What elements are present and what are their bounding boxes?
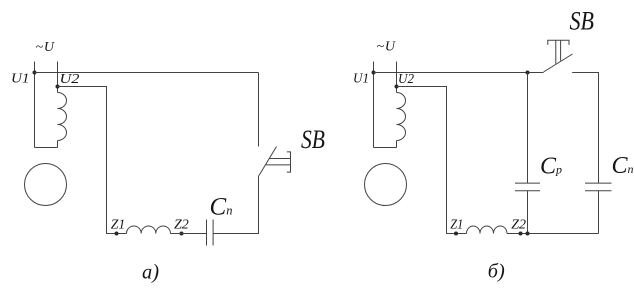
capacitor Cn plates (a) (207, 220, 214, 246)
node U2 (a) (56, 85, 60, 89)
wire: capacitor to switch lower terminal (a) (213, 176, 258, 234)
motor rotor circle (a) (25, 164, 67, 206)
svg-text:U1: U1 (353, 72, 369, 87)
svg-text:U2: U2 (60, 72, 80, 87)
wire: winding coil bottom tail (b) (396, 141, 398, 148)
svg-text:Cp: Cp (540, 153, 562, 179)
switch SB actuator shafts (a) (266, 159, 291, 165)
wire: right supply stub down to winding (a) (57, 62, 59, 93)
svg-text:~U: ~U (377, 40, 396, 55)
svg-text:U2: U2 (398, 72, 414, 87)
node U1 (a) (33, 71, 37, 75)
winding coil L (b) (397, 93, 406, 141)
wire: U2 down to starting branch (a) (58, 87, 127, 234)
node Z2 (b) (519, 232, 523, 236)
svg-text:U1: U1 (11, 72, 30, 87)
inductor Z coil (b) (467, 226, 508, 234)
node Z1 (b) (454, 232, 458, 236)
wire: U2 down to starting branch (b) (397, 87, 467, 234)
node Z2 (a) (180, 232, 184, 236)
wire: left supply stub + winding left leg (a) (34, 62, 36, 148)
capacitor Cn plates (b) (585, 183, 612, 191)
svg-text:~U: ~U (36, 40, 55, 55)
switch SB actuator shafts (b) (556, 40, 561, 63)
svg-text:Z1: Z1 (111, 218, 126, 233)
wire: right supply stub down to winding (b) (396, 62, 398, 93)
node: junction of Cp branch on top bus (b) (526, 71, 530, 75)
wire: left supply stub + winding left leg (b) (373, 62, 375, 148)
wire: Cn branch lower lead (b) (598, 191, 600, 234)
switch SB fixed contact lead (a) (258, 73, 260, 147)
svg-text:б): б) (488, 261, 505, 283)
wire: coil to capacitor (a) (171, 233, 207, 235)
switch SB blade (a) (259, 147, 277, 176)
svg-text:Cn: Cn (612, 153, 634, 179)
wire: Cp branch upper lead (b) (527, 73, 529, 184)
svg-text:Z1: Z1 (450, 218, 463, 233)
wire: winding bottom lead (a) (35, 147, 58, 149)
node: junction of Cp branch on bottom bus (b) (526, 232, 530, 236)
svg-text:Cn: Cn (210, 194, 233, 221)
wire: switch fixed contact to Cn branch (b) (572, 73, 598, 184)
inductor Z coil (a) (127, 226, 171, 234)
svg-text:Z2: Z2 (511, 218, 526, 233)
motor rotor circle (b) (365, 164, 407, 206)
capacitor Cp plates (b) (515, 183, 540, 191)
wire: top bus U1 to switch blade pivot (b) (374, 72, 544, 74)
svg-text:SB: SB (570, 7, 595, 36)
switch SB button bracket (a) (287, 152, 291, 172)
node Z1 (a) (115, 232, 119, 236)
svg-text:Z2: Z2 (174, 218, 189, 233)
switch SB button bar (b) (548, 40, 569, 45)
switch SB blade (b) (544, 54, 573, 72)
node U1 (b) (372, 71, 376, 75)
svg-text:SB: SB (301, 125, 325, 154)
wire: Cp branch lower lead (b) (527, 191, 529, 234)
wire: winding bottom lead (b) (374, 147, 397, 149)
winding coil L (a) (58, 93, 67, 141)
wire: winding coil bottom tail (a) (57, 141, 59, 148)
wire: bottom bus coil to Cn branch (b) (507, 233, 599, 235)
node U2 (b) (395, 85, 399, 89)
wire: top bus U1 to switch (a) (35, 72, 259, 74)
svg-text:а): а) (142, 259, 159, 283)
